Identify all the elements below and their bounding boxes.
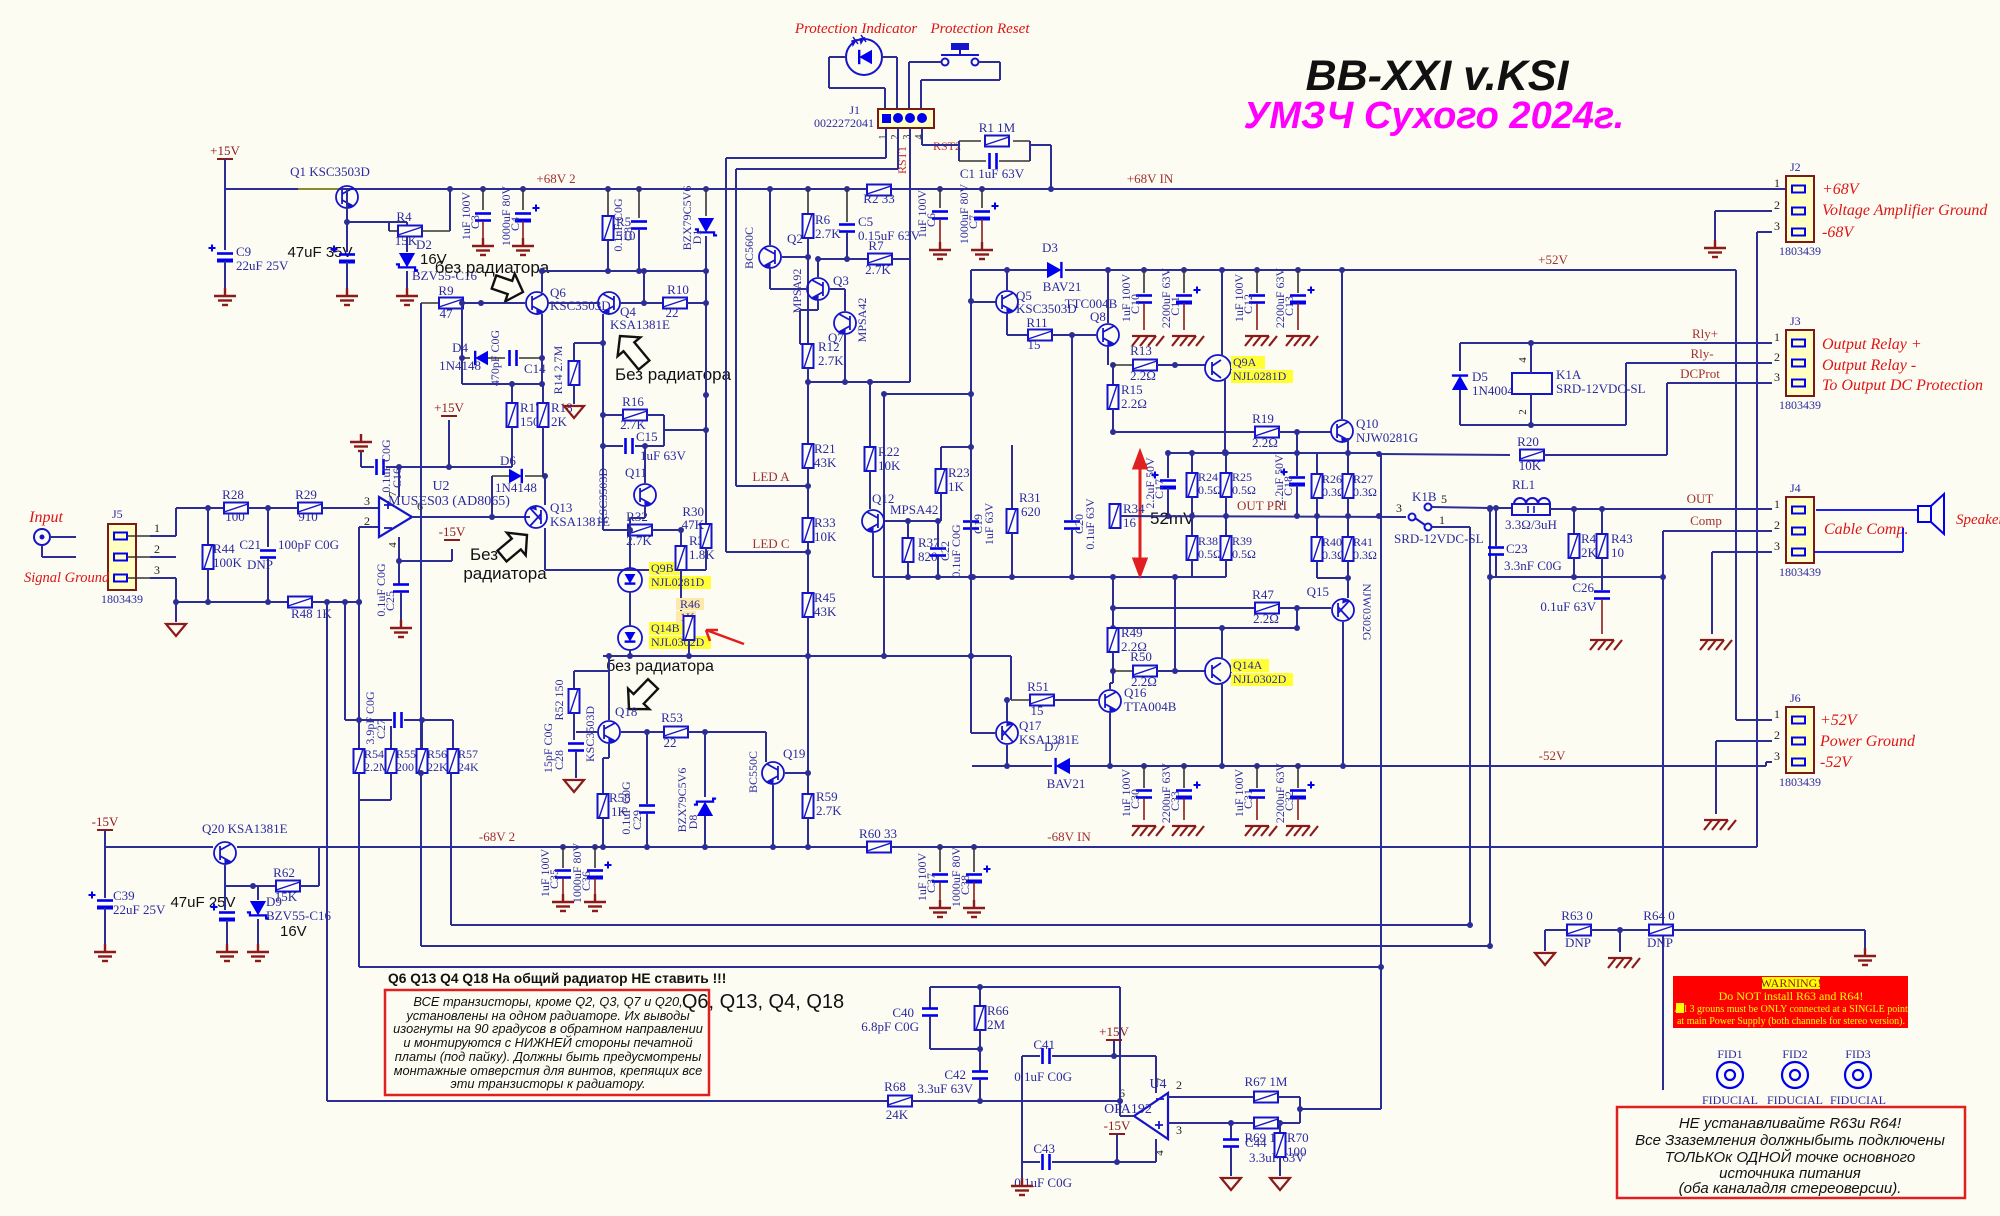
wire LED right to J1 pin2: [882, 56, 897, 58]
svg-text:R2 33: R2 33: [863, 191, 894, 206]
resistor R12: [803, 344, 814, 368]
transistor Q2: [759, 246, 781, 268]
resistor R28: [224, 503, 248, 514]
wire K1A pin2: [1530, 394, 1532, 425]
zener D1: [703, 186, 709, 192]
wire R20 feed: [1296, 432, 1298, 453]
svg-text:C35: C35: [547, 869, 561, 889]
wire R17 to +15V row: [449, 466, 512, 468]
svg-text:3: 3: [1176, 1123, 1182, 1137]
svg-text:-68V: -68V: [1822, 224, 1855, 241]
svg-text:C42: C42: [944, 1067, 966, 1082]
transistor Q15: [1332, 599, 1354, 621]
feedback bus L2: [421, 945, 1490, 947]
svg-text:47: 47: [440, 306, 454, 321]
resistor R39: [1225, 516, 1227, 536]
resistor R50: [1110, 668, 1116, 674]
capacitor C22: [937, 521, 939, 547]
wire x1113 top: [1112, 577, 1114, 628]
ground under C38: [963, 900, 985, 917]
wire OUT_PRI to K1B: [1406, 516, 1408, 518]
svg-text:D9: D9: [266, 894, 282, 909]
resistor R46 highlighted: [676, 598, 704, 610]
wire Q18 base: [574, 731, 597, 733]
svg-text:22uF 25V: 22uF 25V: [113, 902, 166, 917]
resistor R22: [869, 382, 871, 448]
svg-text:3.3uF 63V: 3.3uF 63V: [917, 1081, 973, 1096]
capacitor C1: [958, 141, 960, 161]
svg-text:1uF 63V: 1uF 63V: [982, 502, 996, 545]
ground under C36: [584, 894, 606, 911]
resistor R14 2.7M: [573, 343, 575, 361]
resistor R64: [1620, 929, 1649, 931]
resistor R60: [867, 842, 891, 853]
svg-text:10K: 10K: [814, 529, 837, 544]
ground bar right R64: [1864, 930, 1866, 948]
svg-text:R51: R51: [1027, 679, 1049, 694]
wire Q10 collector: [1341, 270, 1343, 419]
svg-text:R52 150: R52 150: [552, 679, 566, 720]
wire C1 to +68V bus: [1030, 144, 1051, 146]
note box bottom right: [1617, 1107, 1965, 1198]
svg-text:BAV21: BAV21: [1043, 279, 1082, 294]
wire R9 left NFB vertical: [420, 303, 422, 946]
svg-text:R11: R11: [1026, 315, 1047, 330]
svg-text:All 3 grouns must be ONLY conn: All 3 grouns must be ONLY connected at a…: [1674, 1004, 1908, 1015]
wire Q4 node to row: [643, 271, 645, 303]
wire Q16 collector: [1109, 713, 1111, 766]
svg-text:-52V: -52V: [1820, 754, 1853, 771]
wire Q6-Q4 base link: [548, 302, 598, 304]
svg-text:R4: R4: [396, 209, 412, 224]
svg-text:0.1uF 63V: 0.1uF 63V: [1540, 599, 1596, 614]
svg-text:R59: R59: [816, 789, 838, 804]
svg-text:1803439: 1803439: [101, 592, 143, 606]
svg-text:R10: R10: [667, 282, 689, 297]
svg-text:платы (под пайку). Должны быть: платы (под пайку). Должны быть предусмот…: [395, 1049, 702, 1064]
wire Q16 emitter: [1110, 671, 1113, 689]
svg-text:1803439: 1803439: [1779, 775, 1821, 789]
op-amp U4: [1134, 1093, 1168, 1139]
wire Q11 collector: [644, 446, 646, 483]
ground under C35: [552, 894, 574, 911]
red arrow to R46: [706, 630, 744, 644]
transistor Q20: [214, 842, 236, 864]
svg-text:2.2Ω: 2.2Ω: [1253, 611, 1279, 626]
wire Q3 Q7 links: [817, 259, 819, 277]
svg-text:R66: R66: [987, 1003, 1009, 1018]
wire R10 to R30 node: [719, 301, 721, 303]
svg-text:Q2: Q2: [787, 231, 803, 246]
svg-text:Rly-: Rly-: [1690, 346, 1713, 361]
svg-text:Q14B: Q14B: [651, 621, 680, 635]
transistor Q19: [762, 762, 784, 784]
svg-text:NJL0302D: NJL0302D: [651, 635, 705, 649]
capacitor C35: [560, 844, 566, 850]
svg-text:15: 15: [1031, 703, 1044, 718]
resistor R7: [847, 258, 880, 260]
svg-text:C23: C23: [1506, 541, 1528, 556]
svg-text:1: 1: [1774, 330, 1780, 344]
capacitor C6: [937, 186, 943, 192]
svg-text:LED A: LED A: [752, 469, 790, 484]
wire Q4 emitter down: [602, 343, 604, 530]
svg-text:3.3Ω/3uH: 3.3Ω/3uH: [1505, 517, 1557, 532]
svg-text:C27: C27: [374, 719, 388, 739]
svg-text:D3: D3: [1042, 240, 1058, 255]
resistor R2: [866, 188, 892, 190]
svg-text:3: 3: [902, 135, 913, 140]
capacitor C31: [1254, 763, 1260, 769]
capacitor C43 row: [1022, 1161, 1040, 1163]
svg-text:4: 4: [387, 542, 399, 548]
wire R10 down to R30 top: [705, 271, 707, 395]
transistor Q9A thermal: [1205, 355, 1231, 381]
wire divider links: [344, 602, 346, 720]
svg-text:10K: 10K: [1519, 458, 1542, 473]
wire Q14A collector: [1221, 683, 1223, 766]
resistor R26: [1316, 453, 1318, 474]
ground under D9: [247, 944, 269, 961]
capacitor C32: [1295, 763, 1301, 769]
servo loop top rail: [930, 986, 1120, 988]
svg-text:16V: 16V: [280, 923, 307, 940]
feedback row: [176, 601, 289, 603]
svg-text:15: 15: [1028, 337, 1041, 352]
transistor Q4: [598, 292, 620, 314]
capacitor C39: [104, 847, 106, 898]
svg-text:C1 1uF 63V: C1 1uF 63V: [960, 166, 1025, 181]
resistor R30: [705, 395, 707, 524]
resistor R53: [664, 727, 688, 738]
svg-text:D5: D5: [1472, 369, 1488, 384]
capacitor C15: [624, 438, 627, 454]
svg-text:и монтируются с НИЖНЕЙ стороны: и монтируются с НИЖНЕЙ стороны печатной: [403, 1034, 692, 1050]
resistor R21: [807, 382, 809, 445]
vertical comp feedback: [1662, 577, 1664, 1090]
wire relay top row Rly+: [1460, 342, 1531, 344]
wire Q9B to Q14B: [629, 592, 631, 626]
ground J2: [1704, 240, 1726, 257]
wire DCProt: [1667, 382, 1772, 384]
note box bottom left: [385, 990, 709, 1095]
capacitor C37: [937, 844, 943, 850]
svg-text:без радиатора: без радиатора: [435, 258, 550, 277]
svg-text:0.5Ω: 0.5Ω: [1232, 483, 1256, 497]
resistor R20: [1520, 450, 1544, 461]
wire R67 R69 join: [1299, 1097, 1301, 1123]
wire Q12 base row: [885, 524, 941, 526]
svg-text:УМЗЧ Сухого 2024г.: УМЗЧ Сухого 2024г.: [1244, 95, 1625, 137]
wire U4 pin4: [1155, 1139, 1157, 1162]
ground slash middle: [1619, 930, 1621, 952]
svg-text:R70: R70: [1287, 1130, 1309, 1145]
diode D7: [1056, 758, 1070, 774]
transistor Q11: [634, 484, 656, 506]
transistor Q3: [807, 278, 829, 300]
svg-text:10: 10: [1611, 545, 1624, 560]
svg-text:C13: C13: [1282, 296, 1296, 316]
svg-text:BAV21: BAV21: [1047, 776, 1086, 791]
transistor Q12: [862, 510, 884, 532]
svg-text:1: 1: [1774, 497, 1780, 511]
svg-text:C8: C8: [621, 227, 635, 241]
svg-text:R21: R21: [814, 441, 836, 456]
svg-text:FID2: FID2: [1782, 1047, 1807, 1061]
transistor Q8: [1097, 324, 1119, 346]
left feedback verticals: [324, 599, 330, 605]
ground slash J6: [1704, 820, 1736, 830]
svg-text:R27: R27: [1353, 472, 1373, 486]
svg-text:Q18: Q18: [615, 704, 637, 719]
svg-text:Rly+: Rly+: [1692, 326, 1718, 341]
svg-text:J4: J4: [1790, 481, 1801, 495]
svg-text:1.8K: 1.8K: [689, 547, 715, 562]
capacitor C36: [592, 844, 598, 850]
resistor R56: [421, 720, 423, 749]
resistor R38: [1191, 516, 1193, 536]
capacitor C19: [941, 446, 971, 448]
svg-text:2: 2: [1774, 198, 1780, 212]
wire Q13 emitter: [544, 528, 546, 570]
svg-text:R60 33: R60 33: [859, 826, 897, 841]
svg-text:Q3: Q3: [833, 273, 849, 288]
wire J1 pin2 LED_A drop: [897, 128, 899, 169]
svg-text:C25: C25: [383, 591, 397, 611]
svg-text:R38: R38: [1198, 534, 1218, 548]
resistor R31: [1011, 445, 1013, 509]
svg-text:+15V: +15V: [434, 400, 464, 415]
wire J2 pin3 -68V: [1757, 231, 1772, 233]
ground slash C30: [1132, 826, 1164, 836]
svg-text:1: 1: [1774, 707, 1780, 721]
svg-text:Comp: Comp: [1690, 513, 1722, 528]
svg-text:R26: R26: [1322, 472, 1342, 486]
svg-text:R12: R12: [818, 339, 840, 354]
ground slash C11: [1172, 336, 1204, 346]
capacitor C20: [1071, 335, 1073, 520]
svg-text:+15V: +15V: [210, 143, 240, 158]
svg-text:R6: R6: [815, 212, 831, 227]
wire R19 row: [1113, 431, 1256, 433]
resistor R41: [1347, 516, 1349, 537]
transistor Q10: [1331, 420, 1353, 442]
svg-text:C32: C32: [1282, 791, 1296, 811]
ground under C3: [472, 238, 494, 255]
svg-text:C39: C39: [113, 888, 135, 903]
svg-text:1N4148: 1N4148: [439, 358, 481, 373]
svg-text:R34: R34: [1123, 501, 1145, 516]
svg-text:C15: C15: [636, 429, 658, 444]
wire OUT row: [1432, 507, 1490, 508]
wire switch left to J1 pin3: [909, 61, 941, 63]
svg-text:R25: R25: [1232, 470, 1252, 484]
svg-text:D6: D6: [500, 453, 516, 468]
resistor R32: [603, 529, 628, 531]
svg-text:FIDUCIAL: FIDUCIAL: [1830, 1093, 1886, 1107]
svg-text:C28: C28: [552, 750, 566, 770]
capacitor C25: [399, 560, 402, 562]
svg-text:1000uF 80V: 1000uF 80V: [957, 183, 971, 244]
capacitor C41 row: [1022, 1055, 1040, 1057]
op-amp U2: [379, 497, 412, 537]
svg-text:Q9B: Q9B: [651, 561, 674, 575]
transistor Q7: [834, 312, 856, 334]
wire U4 in- row: [1168, 1096, 1255, 1098]
diode D4: [461, 303, 463, 384]
svg-text:3: 3: [1396, 501, 1402, 515]
capacitor C13: [1295, 267, 1301, 273]
svg-text:C7: C7: [966, 215, 980, 229]
svg-text:R55: R55: [396, 747, 416, 761]
capacitor C23: [1495, 509, 1497, 551]
svg-text:FID3: FID3: [1845, 1047, 1870, 1061]
svg-text:R20: R20: [1517, 434, 1539, 449]
wire -15V rail: [105, 846, 347, 848]
wire U2 pin4: [398, 537, 400, 561]
transistor Q14A thermal: [1205, 658, 1231, 684]
ground under 47uF: [216, 944, 238, 961]
svg-text:R57: R57: [458, 747, 478, 761]
svg-text:0.3Ω: 0.3Ω: [1353, 485, 1377, 499]
svg-text:Q20 KSA1381E: Q20 KSA1381E: [202, 821, 288, 836]
ground under C7: [971, 242, 993, 259]
capacitor C7: [979, 186, 985, 192]
wire Q7-R22 row: [845, 381, 910, 383]
ground C16: [360, 450, 362, 467]
wire R51 to rail650: [1010, 656, 1012, 700]
capacitor C29: [646, 732, 648, 804]
ground slash C31: [1245, 826, 1277, 836]
svg-text:2: 2: [1517, 409, 1529, 415]
capacitor C12: [1254, 267, 1260, 273]
speaker symbol: [1918, 494, 1944, 534]
svg-text:Cable Comp.: Cable Comp.: [1824, 521, 1908, 538]
vertical K1B to L1: [1469, 527, 1471, 925]
wire Q11 emitter to Q9B chain: [644, 507, 646, 518]
svg-text:KSC3503D: KSC3503D: [583, 706, 597, 762]
ground under Q1 cap: [336, 288, 358, 305]
svg-text:LED C: LED C: [752, 536, 789, 551]
resistor R51: [1011, 699, 1031, 701]
svg-text:-68V IN: -68V IN: [1047, 829, 1091, 844]
resistor R25: [1225, 453, 1227, 473]
svg-text:R50: R50: [1130, 649, 1152, 664]
svg-text:ВСЕ транзисторы, кроме Q2, Q3,: ВСЕ транзисторы, кроме Q2, Q3, Q7 и Q20,: [413, 994, 682, 1009]
svg-text:2: 2: [890, 135, 901, 140]
resistor R33: [807, 486, 809, 519]
bias rail y650: [603, 655, 1011, 657]
ground under C37: [929, 900, 951, 917]
svg-text:R1 1M: R1 1M: [979, 120, 1016, 135]
resistor R10: [620, 302, 663, 304]
svg-text:R19: R19: [1252, 411, 1274, 426]
svg-text:0.1uF C0G: 0.1uF C0G: [949, 524, 963, 578]
wire Q18 emitter row to R53: [621, 731, 665, 733]
svg-text:WARNING!: WARNING!: [1761, 976, 1822, 990]
transistor Q6: [526, 292, 548, 314]
svg-text:1803439: 1803439: [1779, 398, 1821, 412]
svg-text:D7: D7: [1044, 739, 1060, 754]
svg-text:R23: R23: [948, 465, 970, 480]
resistor R9: [421, 302, 438, 304]
wire Q20 emitter: [224, 865, 226, 886]
svg-text:C10: C10: [1128, 294, 1142, 314]
wire Q19 base: [785, 772, 808, 774]
svg-text:47uF 35V: 47uF 35V: [287, 244, 352, 261]
resistor R23: [940, 447, 942, 469]
resistor R24: [1191, 453, 1193, 473]
svg-text:NJW0302G: NJW0302G: [1360, 583, 1374, 641]
wire Q12 emitter: [872, 533, 874, 577]
svg-text:Все Ззаземления должныбыть под: Все Ззаземления должныбыть подключены: [1635, 1132, 1945, 1149]
svg-text:KSA1381E: KSA1381E: [610, 317, 670, 332]
svg-text:R24: R24: [1198, 470, 1218, 484]
svg-text:3: 3: [154, 563, 160, 577]
svg-text:22: 22: [664, 735, 677, 750]
svg-text:0.5Ω: 0.5Ω: [1232, 547, 1256, 561]
wire Q19 emitter: [765, 784, 767, 847]
svg-text:Power Ground: Power Ground: [1819, 733, 1916, 750]
svg-text:изогнуты на 90 градусов в обра: изогнуты на 90 градусов в обратном напра…: [393, 1021, 703, 1036]
resistor R45: [807, 552, 809, 594]
svg-text:R7: R7: [868, 238, 884, 253]
svg-text:R53: R53: [661, 710, 683, 725]
svg-text:2: 2: [1774, 350, 1780, 364]
LED protection indicator: [846, 39, 882, 75]
resistor R62: [225, 885, 276, 887]
svg-text:R46: R46: [680, 597, 700, 611]
wire J4 pin3 ground: [1712, 551, 1772, 553]
svg-text:R68: R68: [884, 1079, 906, 1094]
resistor R13: [1110, 362, 1116, 368]
resistor R40: [1316, 516, 1318, 537]
wire LED left to J1 pin1: [829, 56, 846, 58]
wire Q4 emitter to R14: [602, 314, 604, 343]
svg-text:+68V 2: +68V 2: [536, 171, 575, 186]
svg-text:R45: R45: [814, 590, 836, 605]
svg-text:470pF C0G: 470pF C0G: [488, 329, 502, 386]
ground slash C13: [1286, 336, 1318, 346]
ground arrow input: [175, 602, 177, 622]
svg-text:J3: J3: [1790, 314, 1801, 328]
svg-text:100pF C0G: 100pF C0G: [278, 537, 339, 552]
svg-text:6.8pF C0G: 6.8pF C0G: [861, 1019, 919, 1034]
resistor R43: [1599, 506, 1605, 512]
ground slash C32: [1286, 826, 1318, 836]
diode D3: [1047, 262, 1061, 278]
transistor Q18: [598, 721, 620, 743]
wire speaker plus: [1814, 509, 1918, 511]
relay K1A coil: [1512, 373, 1552, 394]
capacitor C42: [979, 1049, 981, 1071]
svg-text:+68V: +68V: [1822, 181, 1861, 198]
svg-text:SRD-12VDC-SL: SRD-12VDC-SL: [1556, 381, 1646, 396]
transistor Q17: [996, 722, 1018, 744]
svg-text:+52V: +52V: [1820, 712, 1859, 729]
wire +52V rail: [971, 269, 1047, 271]
ground under C25: [390, 620, 412, 637]
bypass left vertical: [1021, 1056, 1023, 1180]
wire Q14A emitter up: [1221, 628, 1223, 659]
svg-text:R14 2.7M: R14 2.7M: [551, 345, 565, 394]
svg-text:TTA004B: TTA004B: [1124, 699, 1177, 714]
resistor R55: [390, 720, 392, 749]
resistor R68: [327, 1100, 888, 1102]
wire J6 pin3 -52V: [1748, 762, 1772, 766]
svg-text:R33: R33: [814, 515, 836, 530]
capacitor C26: [1601, 558, 1603, 590]
